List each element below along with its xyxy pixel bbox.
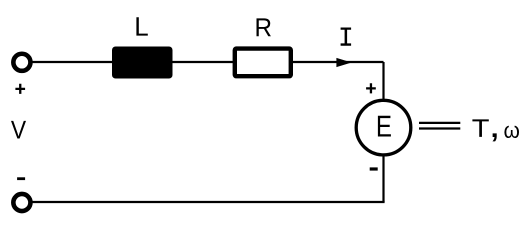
label R xyxy=(256,18,270,36)
label L xyxy=(136,17,147,35)
terminal top-left xyxy=(13,54,30,71)
shaft double line xyxy=(419,122,460,124)
label I xyxy=(341,28,352,46)
wire right vertical upper xyxy=(382,62,384,102)
terminal bottom-left xyxy=(13,194,30,211)
plus sign V xyxy=(15,84,25,94)
label E xyxy=(378,116,391,137)
label T xyxy=(472,119,488,136)
label V xyxy=(11,121,26,139)
wire right vertical lower xyxy=(382,154,384,202)
wire top horizontal xyxy=(30,61,384,63)
label comma xyxy=(493,133,497,141)
label omega xyxy=(504,126,519,138)
inductor L xyxy=(112,47,173,79)
motor E circle xyxy=(356,100,411,155)
minus sign V xyxy=(17,177,25,180)
plus sign E xyxy=(366,83,376,93)
arrowhead of current I xyxy=(336,58,351,67)
minus sign E xyxy=(370,167,378,170)
wire bottom horizontal xyxy=(30,201,385,203)
resistor R xyxy=(235,49,291,77)
